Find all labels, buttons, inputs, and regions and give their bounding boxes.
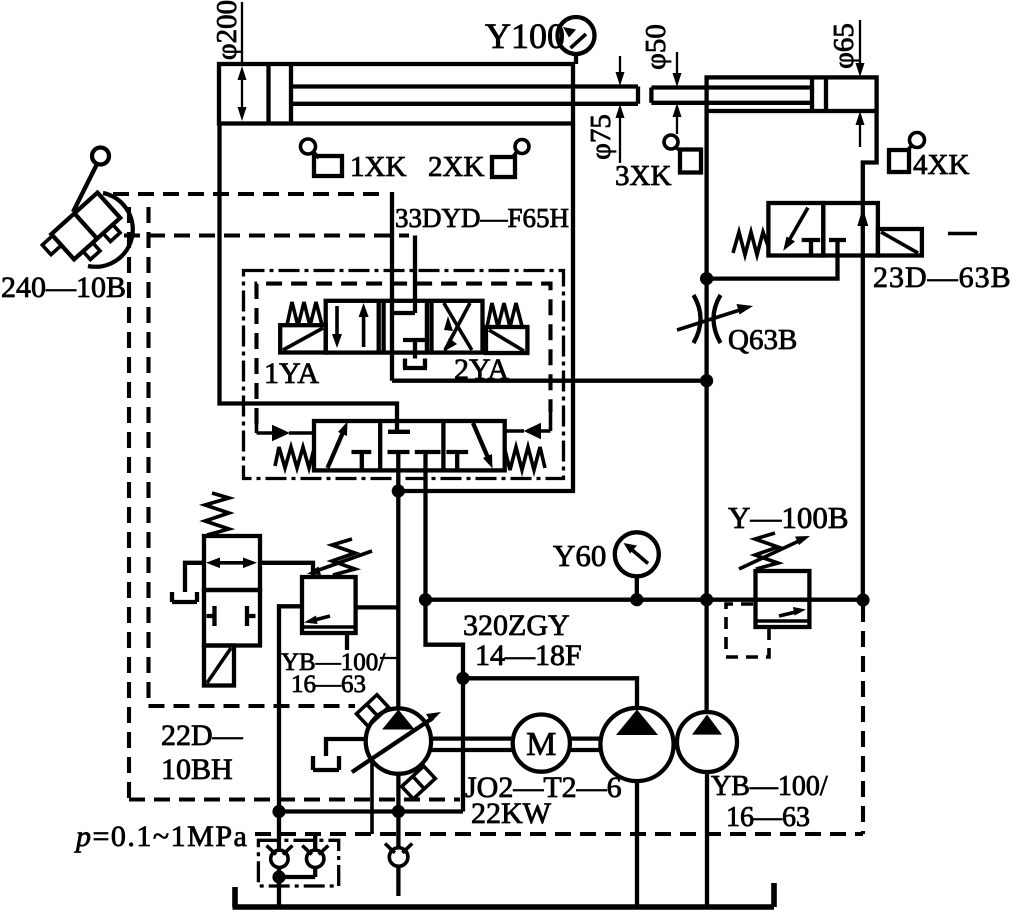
cylinder C2 rod	[651, 88, 812, 103]
wire cylinder right port down and across	[398, 124, 573, 492]
svg-text:Y60: Y60	[553, 538, 606, 573]
wire pump P3 suction	[705, 772, 709, 908]
label 3XK	[615, 160, 671, 192]
pilot drain line (dashed) bottom	[129, 797, 460, 801]
label 14-18F	[475, 639, 582, 672]
svg-text:22D—: 22D—	[161, 719, 244, 752]
pilot drain line (dashed) left inner vertical	[146, 207, 150, 706]
limit switch 4XK	[889, 133, 925, 173]
svg-text:2YA: 2YA	[454, 353, 509, 386]
junction dot E	[700, 374, 713, 387]
main valve center top port	[388, 421, 410, 432]
lever mark 23D	[948, 232, 977, 236]
solenoid 23D box	[878, 229, 922, 256]
label leader tick	[380, 657, 397, 659]
pilot valve 33DYD body	[326, 301, 483, 353]
pilot valve spring right	[487, 303, 522, 327]
unloading valve 22D spring	[205, 493, 229, 535]
pump P3	[677, 712, 737, 772]
cylinder C2 body	[707, 77, 877, 111]
svg-text:320ZGY: 320ZGY	[463, 609, 570, 642]
label 22D-	[161, 719, 244, 752]
valve 23D left position arrow	[783, 208, 808, 251]
junction dot A	[392, 484, 405, 497]
pressure gauge Y100	[558, 17, 595, 64]
svg-text:16—63: 16—63	[291, 671, 366, 698]
svg-text:p=0.1~1MPa: p=0.1~1MPa	[74, 820, 248, 853]
drain line (dashed) right riser	[861, 606, 865, 834]
drain header (dashed) p line	[255, 832, 863, 836]
wire pump P2 suction	[635, 781, 639, 908]
dimension phi200	[211, 0, 247, 121]
label 240-10B	[1, 271, 126, 304]
label 16-63 right	[726, 802, 810, 833]
wire 22D to YB relief	[259, 563, 313, 577]
wire main riser right	[704, 111, 708, 712]
pilot drain line (dashed) left outer vertical	[127, 207, 131, 800]
svg-text:Y—100B: Y—100B	[728, 500, 849, 535]
main valve body	[314, 421, 505, 470]
wire valve output to Q63B	[392, 379, 707, 383]
label Q63B	[728, 324, 797, 356]
main valve left position arrow	[328, 422, 348, 469]
main valve spring right	[505, 447, 545, 470]
svg-text:4XK: 4XK	[913, 149, 969, 181]
solenoid 2YA box	[486, 327, 527, 353]
junction dot H	[272, 805, 285, 818]
relief valve Y-100B pilot (dashed)	[726, 604, 769, 657]
wire main valve port A down	[396, 470, 400, 708]
cylinder C1 body	[219, 64, 573, 124]
svg-text:14—18F: 14—18F	[475, 639, 582, 672]
check valve CV3	[385, 844, 412, 867]
svg-text:23D—63B: 23D—63B	[873, 261, 1012, 294]
label Y-100B	[728, 500, 849, 535]
pressure gauge Y60	[615, 532, 659, 599]
junction dot C	[456, 672, 469, 685]
wire pilot drain vertical	[413, 236, 417, 314]
check valve box chain frame	[258, 840, 338, 886]
check valve CV2	[279, 834, 328, 877]
pump P2	[600, 708, 673, 781]
relief valve Y-100B spring	[739, 533, 810, 569]
label JO2-T2-6	[465, 771, 622, 804]
main pressure line horizontal	[426, 598, 864, 602]
junction dot J	[272, 870, 285, 883]
svg-text:22KW: 22KW	[471, 797, 552, 830]
pilot line left with triangle	[257, 425, 315, 442]
label 4XK	[913, 149, 969, 181]
pilot line right with triangle	[505, 423, 551, 440]
variable pump P1 320ZGY	[352, 708, 441, 773]
pilot drain line (dashed) top	[113, 192, 386, 196]
pump P1 case port lower	[402, 766, 436, 799]
junction dot I	[392, 805, 405, 818]
junction dot F	[700, 593, 713, 606]
pump P1 outlet down	[396, 774, 400, 812]
electric motor M	[513, 715, 570, 772]
relief valve YB left spring	[307, 539, 372, 575]
limit switch 2XK	[492, 140, 529, 178]
valve 23D spring	[733, 232, 768, 255]
solenoid 1YA box	[280, 325, 326, 352]
svg-text:Q63B: Q63B	[728, 324, 797, 356]
label 33DYD-F65H	[395, 203, 569, 233]
wire cylinder left port to main valve	[220, 124, 398, 422]
relief valve YB left body	[302, 577, 356, 633]
pump P1 suction and tank	[313, 739, 366, 770]
svg-text:M: M	[526, 726, 556, 763]
pilot drain line (dashed) second	[124, 233, 409, 237]
valve 23D blocked ports	[802, 240, 846, 256]
check valve CV1 line	[277, 812, 281, 909]
manual lever valve 240-10B	[41, 148, 133, 277]
cylinder C1 rod	[291, 87, 638, 104]
label 2YA	[454, 353, 509, 386]
label 10BH	[161, 753, 233, 786]
relief valve YB ports	[279, 606, 398, 811]
check valve CV1	[267, 846, 293, 868]
throttle valve Q63B	[677, 295, 753, 343]
pilot valve spring left	[287, 302, 322, 326]
svg-text:10BH: 10BH	[161, 753, 233, 786]
label 1YA	[264, 357, 319, 390]
svg-text:3XK: 3XK	[615, 160, 671, 192]
svg-text:φ50: φ50	[640, 24, 672, 70]
svg-text:1YA: 1YA	[264, 357, 319, 390]
limit switch 1XK	[301, 139, 343, 176]
label YB-100/ left	[281, 649, 385, 676]
unloading valve 22D lower box	[204, 590, 260, 646]
wire drain collector	[279, 809, 463, 813]
wire pilot supply vertical	[390, 192, 394, 381]
dimension phi65	[828, 20, 865, 147]
label 1XK	[350, 151, 406, 183]
label p=0.1~1MPa	[74, 820, 248, 853]
pilot valve crossed arrows right	[443, 303, 472, 352]
wire valve 23D riser	[861, 203, 865, 600]
wire cylinder C2 right wall jog	[863, 111, 877, 203]
svg-text:φ75: φ75	[585, 114, 617, 160]
pump P1 case port upper	[356, 695, 388, 727]
wire to pump P2	[463, 678, 637, 708]
tank	[233, 883, 775, 907]
valve 22D left port to tank	[172, 563, 204, 602]
label 2XK	[428, 151, 484, 183]
valve assembly chain frame	[244, 271, 564, 479]
main valve blocked ports	[352, 452, 469, 470]
pump P1 drain to header	[370, 761, 374, 834]
wire 23D bottom port	[707, 256, 838, 279]
label 23D-63B	[873, 261, 1012, 294]
label 22KW	[471, 797, 552, 830]
pilot drain line (dashed) to pump case	[149, 704, 356, 708]
main valve right position arrow	[473, 423, 493, 469]
label Y100	[485, 16, 565, 56]
check valve CV3 line	[396, 812, 400, 897]
svg-text:33DYD—F65H: 33DYD—F65H	[395, 203, 569, 233]
unloading valve 22D upper box	[204, 536, 260, 590]
label Y60	[553, 538, 606, 573]
relief valve Y-100B body	[756, 571, 810, 627]
wire main valve port B down	[426, 470, 464, 811]
svg-text:φ65: φ65	[828, 23, 860, 69]
pilot lines dashed frame	[257, 284, 551, 433]
dimension phi75	[585, 56, 625, 163]
pilot valve position arrows left	[332, 303, 369, 348]
junction dot gauge	[630, 593, 643, 606]
cylinder C2 piston	[812, 77, 826, 111]
svg-text:φ200: φ200	[211, 0, 243, 60]
main valve spring left	[275, 447, 314, 468]
motor shaft lines	[431, 739, 600, 750]
junction dot G	[856, 593, 869, 606]
solenoid 22D box	[204, 646, 234, 686]
svg-text:Y100: Y100	[485, 16, 565, 56]
pilot valve center position ports	[392, 313, 427, 368]
svg-text:240—10B: 240—10B	[1, 271, 126, 304]
svg-text:16—63: 16—63	[726, 802, 810, 833]
valve 23D flow arrow up	[857, 208, 868, 226]
label 16-63 left	[291, 671, 366, 698]
valve 23D-63B body	[768, 203, 877, 256]
label 320ZGY	[463, 609, 570, 642]
junction dot D	[700, 272, 713, 285]
limit switch 3XK	[664, 135, 701, 173]
svg-text:YB—100/: YB—100/	[711, 771, 828, 802]
svg-text:1XK: 1XK	[350, 151, 406, 183]
cylinder C1 piston	[269, 64, 292, 124]
dimension phi50	[640, 24, 682, 134]
svg-text:2XK: 2XK	[428, 151, 484, 183]
junction dot B	[419, 593, 432, 606]
label YB-100/ right	[711, 771, 828, 802]
